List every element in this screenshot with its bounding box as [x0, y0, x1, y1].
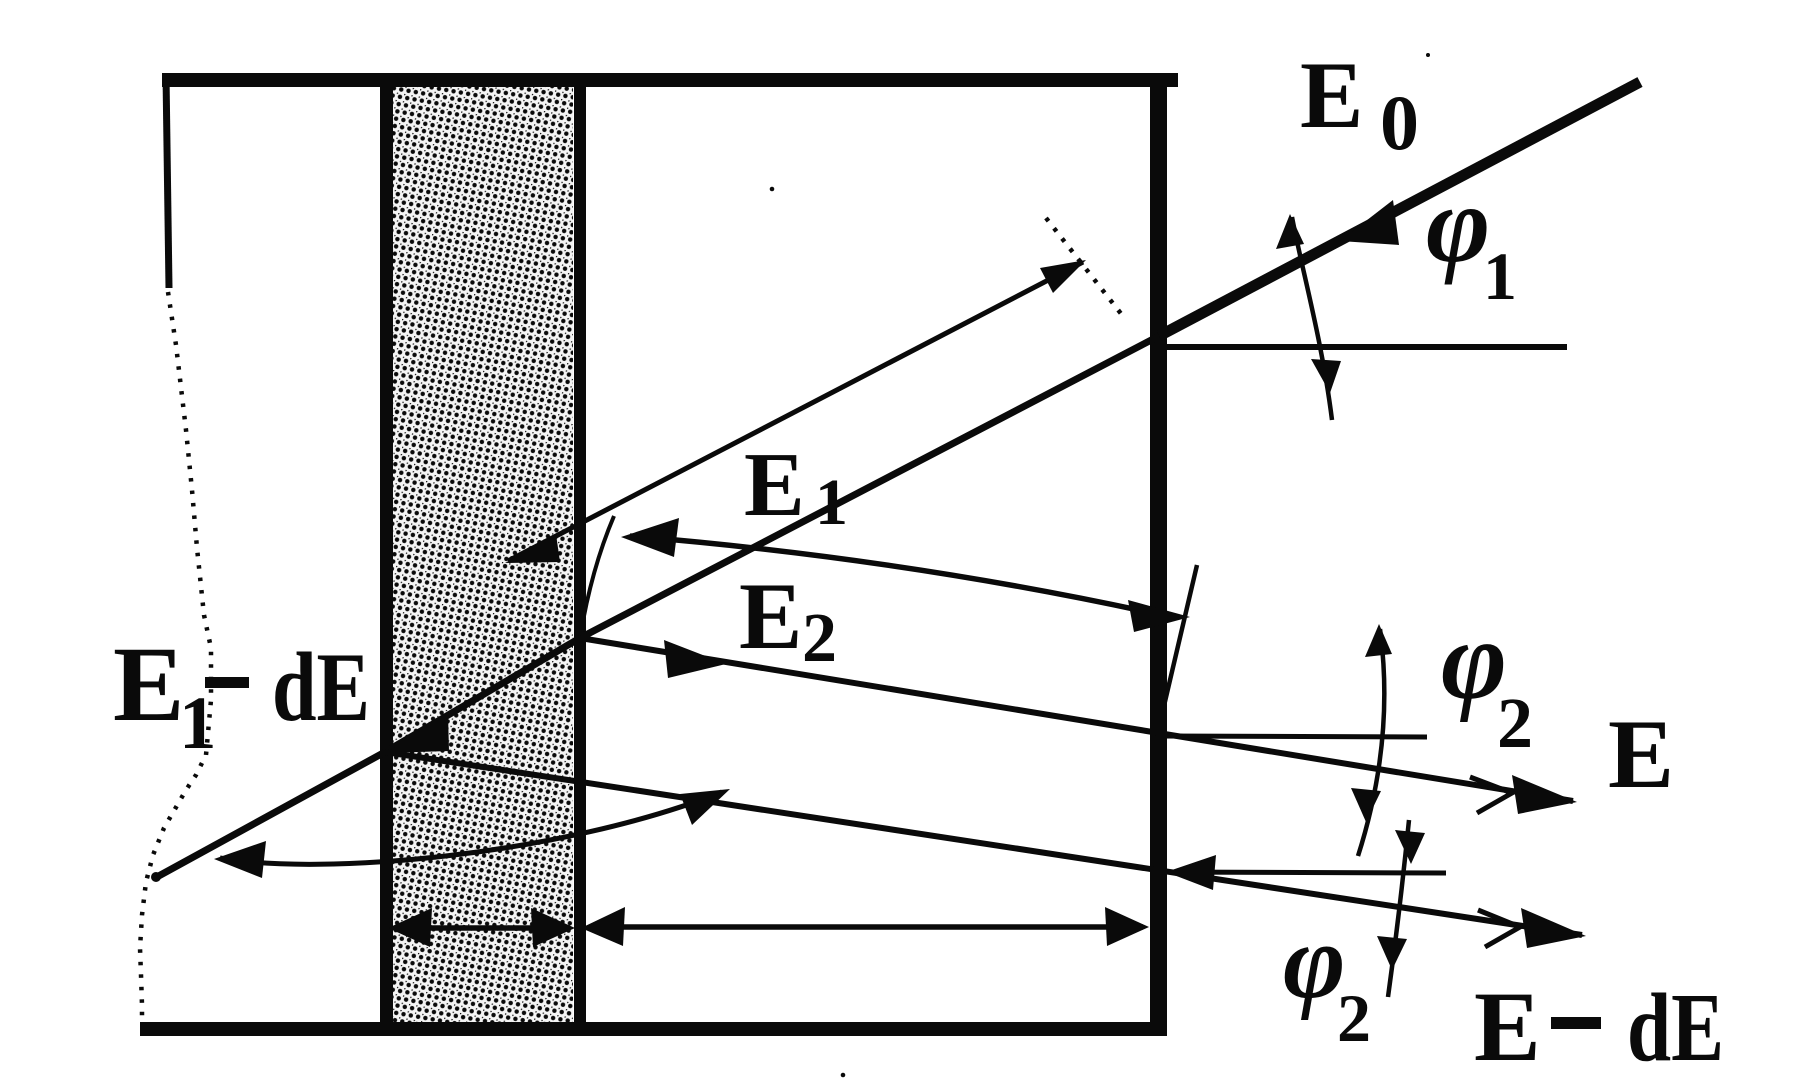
outgoing ray E-dE from node S1: [385, 752, 1582, 935]
arrowhead E2 on outgoing ray: [664, 640, 726, 678]
dx left arrowhead: [388, 908, 432, 947]
depth dimension arrow (layer to surface): [590, 924, 1143, 930]
chevron behind E-dE ray tip: [1478, 910, 1520, 947]
phi2 upper horizontal reference line: [1159, 736, 1427, 737]
svg-text:2: 2: [1337, 980, 1371, 1056]
phi2 lower tick upper down arrowhead: [1395, 830, 1425, 864]
svg-text:E: E: [113, 626, 184, 744]
phi2 upper tick down arrowhead: [1351, 788, 1381, 822]
E1 ray lower arrowhead (inside layer): [505, 534, 560, 563]
depth left arrowhead: [581, 907, 625, 946]
arrowhead on incident beam (mid, pointing down-left): [1340, 200, 1399, 245]
svg-text:1: 1: [815, 466, 848, 539]
phi2 upper tick top arrowhead: [1365, 624, 1392, 657]
dx right arrowhead: [531, 908, 575, 947]
label E1-dE : minus: [205, 677, 249, 688]
svg-text:dE: dE: [272, 633, 370, 742]
incident beam E0 (thick, outside slab): [1159, 82, 1640, 336]
E1 double-headed ray (thin): [508, 262, 1083, 561]
phi2 lower horizontal left arrowhead: [1166, 855, 1216, 890]
E1 ray upper arrowhead: [1040, 260, 1086, 293]
phi1 tick top arrowhead: [1276, 214, 1304, 249]
svg-text:2: 2: [1497, 683, 1533, 763]
phi1 angle tick stroke: [1292, 217, 1332, 420]
E1 path-length arrow right head at surface: [1128, 600, 1190, 632]
dotted normal line at E1 arrow tip: [1046, 218, 1126, 320]
scattering angle arc at S1: [220, 792, 722, 864]
E1 path-length arrow shaft (to surface): [630, 536, 1157, 614]
slab top border: [162, 73, 1178, 87]
phi2 upper angle tick stroke: [1358, 629, 1384, 856]
svg-text:dE: dE: [1627, 974, 1724, 1081]
tick across surface exit point: [1163, 565, 1197, 710]
svg-text:E: E: [1300, 42, 1363, 148]
svg-text:2: 2: [802, 600, 837, 677]
svg-text:E: E: [1474, 971, 1541, 1082]
phi2 lower horizontal reference line: [1160, 872, 1446, 873]
phi2 lower tick lower down arrowhead: [1377, 936, 1407, 970]
outgoing ray E from node S2: [580, 638, 1573, 801]
beam end blob: [151, 872, 161, 882]
layer right border line: [574, 80, 586, 1028]
svg-text:0: 0: [1380, 79, 1419, 166]
svg-text:E: E: [744, 434, 805, 535]
slab right border (target surface): [1150, 73, 1167, 1036]
arc left arrowhead: [214, 841, 266, 878]
scan specks: [770, 53, 1430, 1077]
phi2 lower angle tick stroke: [1388, 820, 1409, 997]
arrowhead at E ray tip: [1512, 775, 1577, 814]
phi1 horizontal reference line: [1159, 344, 1567, 350]
incident beam inside slab to node S2 and node S1: [155, 336, 1159, 878]
svg-text:E: E: [739, 563, 802, 669]
svg-text:1: 1: [179, 682, 217, 765]
slab shaded layer fill (halftone strip): [393, 87, 573, 1023]
label E-dE : minus: [1551, 1017, 1601, 1029]
chevron behind E ray tip: [1470, 777, 1512, 813]
arrowhead at E-dE ray tip: [1521, 908, 1586, 948]
torn left edge (dotted): [140, 292, 211, 1022]
depth right arrowhead: [1105, 907, 1149, 946]
slab left border (solid upper part): [166, 75, 169, 288]
E1 path-length arrow left head (thick): [621, 518, 679, 557]
slab bottom border: [140, 1022, 1167, 1036]
kink line from E1-measure to node S2: [580, 516, 614, 638]
phi1 tick down arrowhead: [1311, 359, 1341, 393]
arrowhead on beam at node S1 (pointing down-left): [386, 714, 449, 753]
depth dimension arrow (layer width dx): [400, 925, 570, 931]
layer left border line: [380, 80, 393, 1028]
svg-text:E: E: [1608, 700, 1674, 809]
svg-text:φ: φ: [1426, 163, 1490, 285]
svg-text:1: 1: [1483, 238, 1517, 314]
arc right arrowhead: [680, 789, 730, 825]
